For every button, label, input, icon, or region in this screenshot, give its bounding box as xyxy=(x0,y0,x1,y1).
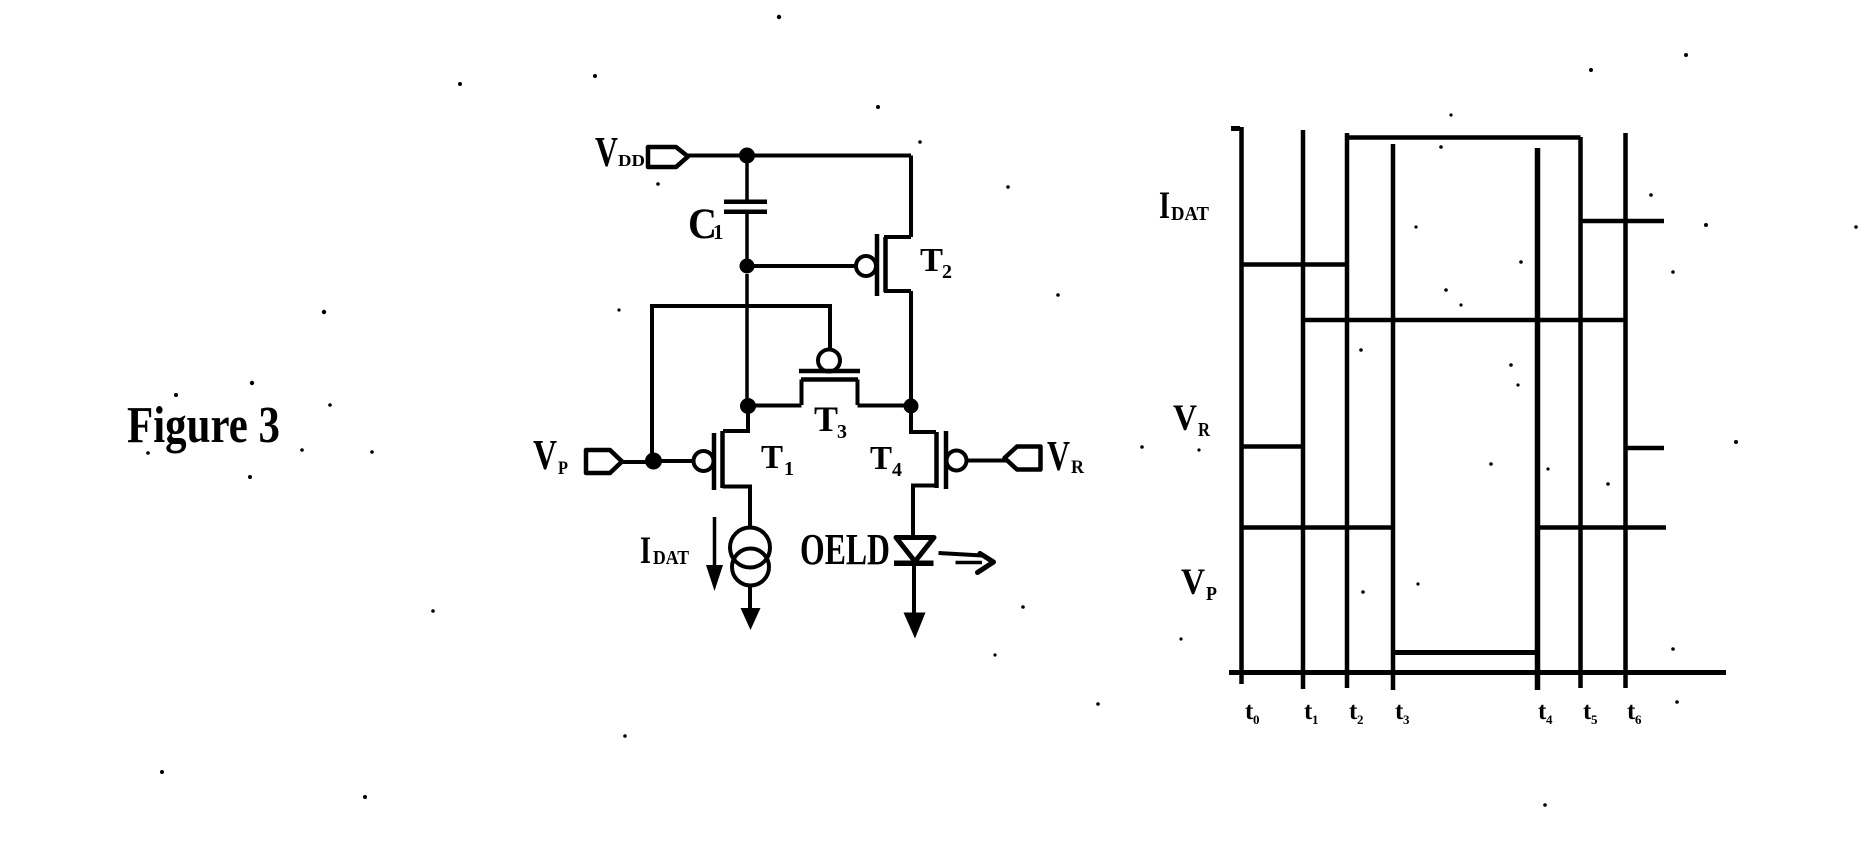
svg-text:5: 5 xyxy=(1591,712,1598,727)
label t4 xyxy=(1538,698,1553,727)
wire C1 node down crossing to T1 drain node xyxy=(745,274,749,406)
label t0 xyxy=(1245,698,1260,727)
transistor T4 xyxy=(911,406,967,536)
svg-text:R: R xyxy=(1071,457,1084,478)
waveform VP low xyxy=(1393,650,1538,655)
axis top serif nub xyxy=(1231,126,1240,131)
time line t3 xyxy=(1391,144,1396,690)
wire VDD rail xyxy=(688,154,911,158)
waveform IDAT low right xyxy=(1581,219,1665,224)
current source IDAT xyxy=(730,528,770,586)
waveform VR low left xyxy=(1241,444,1303,449)
svg-text:DAT: DAT xyxy=(653,547,690,569)
label C1 xyxy=(688,201,724,248)
wire node to capacitor C1 top plate xyxy=(745,156,749,202)
annotation current arrow IDAT xyxy=(706,517,723,591)
svg-text:Figure 3: Figure 3 xyxy=(127,397,280,454)
label t3 xyxy=(1395,698,1410,727)
time line t2 xyxy=(1345,133,1350,688)
transistor T1 xyxy=(694,406,751,527)
waveform VP high left xyxy=(1241,525,1393,530)
wire diode to ground arrow xyxy=(912,566,916,614)
svg-text:1: 1 xyxy=(784,458,794,480)
label VP xyxy=(533,433,568,479)
svg-text:V: V xyxy=(1047,434,1070,480)
svg-text:I: I xyxy=(640,529,651,572)
time line t5 / IDAT falling edge xyxy=(1578,137,1583,688)
wire VDD rail down to T2 drain xyxy=(909,156,913,238)
svg-text:V: V xyxy=(533,433,557,479)
transistor T2 xyxy=(856,234,911,296)
svg-text:T: T xyxy=(761,439,783,476)
label IDAT xyxy=(640,529,690,572)
svg-text:3: 3 xyxy=(837,421,847,443)
wire VP terminal to node xyxy=(622,460,648,464)
axis vertical line t0 xyxy=(1239,127,1244,684)
node T4 drain xyxy=(904,399,919,414)
arrow diode output xyxy=(904,613,926,639)
svg-text:6: 6 xyxy=(1635,712,1642,727)
terminal VDD xyxy=(648,147,688,167)
svg-text:1: 1 xyxy=(1312,712,1319,727)
wire T4 gate bubble to VR terminal xyxy=(967,459,1006,463)
wire gate node to T2 gate bubble xyxy=(747,264,855,268)
svg-text:3: 3 xyxy=(1403,712,1410,727)
label VR xyxy=(1047,434,1084,480)
svg-text:OELD: OELD xyxy=(800,525,890,574)
svg-text:T: T xyxy=(920,242,943,279)
svg-text:V: V xyxy=(1173,398,1197,439)
label T2 xyxy=(920,242,952,283)
svg-text:1: 1 xyxy=(713,220,724,244)
svg-text:P: P xyxy=(1206,583,1217,605)
label IDAT timing xyxy=(1159,184,1210,227)
time line t4 xyxy=(1535,148,1541,690)
label T3 xyxy=(814,399,847,443)
label T4 xyxy=(870,440,902,481)
label t5 xyxy=(1583,698,1598,727)
waveform VP high right xyxy=(1538,525,1666,530)
node T1 drain xyxy=(740,398,756,414)
time line t1 xyxy=(1301,130,1306,689)
svg-text:T: T xyxy=(814,399,838,439)
annotation light emission arrow xyxy=(939,553,994,573)
svg-text:DAT: DAT xyxy=(1171,203,1210,225)
wire T2 source down to node row xyxy=(909,291,913,406)
terminal VP xyxy=(586,450,622,473)
svg-text:DD: DD xyxy=(618,151,645,170)
node VP gate junction xyxy=(645,453,662,470)
svg-text:2: 2 xyxy=(1357,712,1364,727)
wire current source to ground arrow xyxy=(748,586,752,611)
label t6 xyxy=(1627,698,1642,727)
svg-text:2: 2 xyxy=(942,261,952,283)
wire node row right segment xyxy=(858,404,912,408)
time line t6 xyxy=(1623,133,1628,688)
node C1 / T2 gate junction xyxy=(740,259,755,274)
svg-text:V: V xyxy=(595,130,618,176)
waveform VR high xyxy=(1303,318,1626,323)
label VDD xyxy=(595,130,645,176)
wire node row left segment xyxy=(748,404,802,408)
waveform IDAT high xyxy=(1347,135,1581,140)
terminal VR xyxy=(1005,447,1041,470)
capacitor C1 xyxy=(724,200,767,215)
label VR timing xyxy=(1173,398,1210,441)
label t2 xyxy=(1349,698,1364,727)
arrow current source output xyxy=(741,608,761,630)
baseline time axis xyxy=(1229,670,1726,675)
node VDD junction xyxy=(739,148,755,164)
diode OELD xyxy=(894,538,934,567)
label T1 xyxy=(761,439,794,480)
wire capacitor C1 bottom plate to gate node xyxy=(745,214,749,266)
waveform IDAT low left xyxy=(1241,262,1347,267)
svg-text:P: P xyxy=(558,458,568,479)
svg-text:I: I xyxy=(1159,184,1170,227)
svg-text:R: R xyxy=(1198,419,1210,441)
svg-text:4: 4 xyxy=(892,459,902,481)
svg-text:V: V xyxy=(1181,562,1205,603)
wire gate loop VP node up and over to T3 gate xyxy=(652,306,830,460)
svg-text:0: 0 xyxy=(1253,712,1260,727)
waveform VR low right xyxy=(1626,446,1665,451)
transistor T3 xyxy=(799,350,860,406)
svg-text:T: T xyxy=(870,440,892,477)
label VP timing xyxy=(1181,562,1217,605)
label t1 xyxy=(1304,698,1319,727)
wire VP node to T1 gate bubble xyxy=(660,459,693,463)
svg-text:4: 4 xyxy=(1546,712,1553,727)
